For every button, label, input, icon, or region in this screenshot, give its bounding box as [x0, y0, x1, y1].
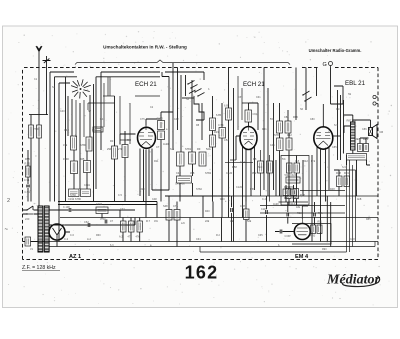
svg-text:EM 4: EM 4 — [295, 254, 309, 260]
svg-text:C120: C120 — [236, 186, 243, 189]
resistor 47 — [129, 221, 135, 232]
svg-text:C81: C81 — [284, 115, 289, 119]
wire — [65, 77, 67, 202]
wire — [101, 72, 160, 150]
svg-text:R.2: R.2 — [216, 234, 221, 237]
wire — [233, 88, 235, 242]
resistor C8 — [287, 163, 293, 173]
wire — [275, 231, 294, 233]
wire — [221, 103, 223, 218]
svg-text:R11: R11 — [154, 160, 159, 163]
svg-text:C.63: C.63 — [100, 217, 106, 221]
svg-text:R23: R23 — [214, 130, 219, 134]
svg-text:27k: 27k — [118, 147, 123, 151]
svg-text:+: + — [228, 199, 230, 203]
wire — [177, 68, 179, 131]
capacitor C115 — [266, 210, 268, 214]
wire stepped — [194, 96, 204, 120]
wire — [103, 95, 115, 97]
resistor 29k — [112, 146, 118, 159]
wire — [316, 68, 318, 97]
capacitor 4n8 b — [364, 144, 369, 152]
output transformer S9 — [351, 122, 356, 150]
svg-text:C40: C40 — [64, 128, 69, 132]
svg-text:R69: R69 — [293, 196, 298, 200]
wire HT bus — [60, 217, 378, 219]
wire — [295, 68, 297, 121]
coil S780 a — [71, 136, 77, 150]
svg-text:C.8: C.8 — [295, 159, 300, 163]
svg-text:S782: S782 — [205, 171, 212, 175]
svg-text:C.5: C.5 — [118, 194, 123, 197]
wire — [123, 218, 140, 242]
capacitor C91 — [26, 185, 30, 187]
wire — [65, 224, 136, 226]
svg-text:162: 162 — [185, 263, 219, 283]
svg-text:A.2: A.2 — [87, 237, 91, 241]
svg-text:R.55: R.55 — [25, 162, 31, 166]
wire — [186, 75, 193, 152]
wire — [338, 90, 371, 196]
svg-text:C61: C61 — [253, 112, 258, 116]
svg-text:C28: C28 — [240, 204, 245, 208]
svg-text:S.9: S.9 — [334, 123, 338, 127]
svg-text:C86: C86 — [362, 128, 367, 131]
IF transformer S780 C191/C192 — [69, 189, 80, 197]
svg-text:C42: C42 — [174, 118, 179, 121]
svg-text:R48: R48 — [336, 171, 341, 175]
wire — [266, 196, 268, 242]
svg-text:R.81: R.81 — [300, 193, 306, 197]
wire — [172, 63, 174, 150]
resistor R55 — [26, 166, 31, 177]
svg-text:C62: C62 — [84, 220, 89, 224]
wire — [228, 68, 230, 218]
band switch contacts — [71, 79, 91, 98]
svg-text:R66: R66 — [293, 115, 298, 119]
svg-text:Umschalter Radio-Gramm.: Umschalter Radio-Gramm. — [309, 48, 362, 53]
tube ECH21 no.2 — [240, 127, 257, 150]
wire — [30, 115, 32, 202]
IF transformer C61 — [245, 110, 252, 122]
svg-text:R4: R4 — [127, 138, 131, 142]
svg-text:R68: R68 — [284, 196, 289, 200]
wire heater bus 1 — [35, 241, 378, 243]
svg-text:C.4: C.4 — [262, 198, 267, 201]
brace under caption — [75, 60, 290, 65]
svg-text:R12: R12 — [287, 133, 292, 137]
wire — [230, 159, 236, 161]
svg-text:R40: R40 — [205, 210, 210, 213]
svg-text:C88: C88 — [350, 238, 355, 241]
wire — [286, 185, 294, 202]
earth / pickup jack — [43, 56, 51, 66]
wire — [303, 155, 312, 242]
coil S781 — [177, 152, 185, 166]
wire — [79, 103, 81, 189]
svg-text:Umschaltekontakten in R.W. - S: Umschaltekontakten in R.W. - Stellung — [103, 45, 187, 50]
tube EM4 — [294, 219, 310, 240]
svg-text:C59: C59 — [238, 96, 243, 99]
resistor R91 — [317, 225, 322, 234]
wire corner — [55, 77, 78, 202]
svg-text:C63: C63 — [120, 208, 125, 211]
capacitor 4n8 a — [358, 144, 363, 152]
wire az1 — [49, 225, 70, 247]
scan speckle — [252, 35, 255, 38]
svg-text:465: 465 — [80, 157, 85, 161]
svg-text:C117: C117 — [289, 202, 296, 206]
wire — [331, 68, 344, 105]
wire — [279, 201, 309, 203]
wire — [180, 164, 193, 202]
electrolytic cap + — [231, 208, 233, 212]
svg-text:S783: S783 — [274, 133, 281, 137]
resistor right — [337, 176, 343, 187]
svg-text:R5: R5 — [253, 157, 257, 161]
wire — [280, 103, 290, 196]
svg-text:S.4: S.4 — [170, 147, 174, 151]
svg-text:C76: C76 — [173, 204, 178, 208]
resistor R12 — [294, 163, 300, 173]
capacitor C108 — [69, 208, 71, 212]
resistor A.C 052 — [258, 161, 264, 173]
svg-text:052: 052 — [252, 171, 257, 175]
svg-text:C64: C64 — [196, 238, 201, 241]
svg-text:C48: C48 — [152, 198, 157, 201]
capacitor C63 — [105, 220, 107, 224]
switch contact right — [303, 91, 312, 101]
wire em4 frame — [292, 206, 331, 244]
wire — [257, 103, 259, 130]
svg-text:S48: S48 — [163, 204, 168, 208]
wire — [260, 212, 345, 214]
wire C44 box — [93, 127, 103, 132]
svg-text:S.9: S.9 — [342, 166, 346, 169]
svg-text:S781: S781 — [185, 147, 192, 151]
svg-text:BES: BES — [363, 137, 368, 141]
svg-text:R.7: R.7 — [146, 219, 151, 223]
svg-text:ECH 21: ECH 21 — [243, 81, 265, 88]
svg-text:C54: C54 — [224, 138, 229, 142]
wire — [74, 150, 87, 189]
loudspeaker — [369, 125, 378, 139]
svg-text:1990: 1990 — [63, 157, 69, 161]
svg-text:Z.F. = 128 kHz: Z.F. = 128 kHz — [22, 265, 56, 271]
tube ECH21 no.1 — [138, 126, 156, 149]
wire — [161, 112, 173, 202]
svg-text:4x20: 4x20 — [273, 202, 279, 206]
wire — [49, 209, 135, 211]
svg-text:C46: C46 — [270, 144, 275, 147]
wire v3 pins — [317, 146, 329, 242]
wire bus — [58, 201, 157, 203]
resistor — [286, 138, 292, 150]
wire corner — [59, 83, 70, 242]
svg-text:R87 R87: R87 R87 — [347, 119, 358, 123]
resistor R69b — [291, 189, 297, 196]
wire — [120, 139, 131, 141]
wire speaker leads — [344, 115, 371, 128]
svg-text:52k: 52k — [247, 219, 252, 223]
tube EBL21 — [314, 104, 333, 149]
wire — [162, 72, 169, 190]
svg-text:C.54: C.54 — [218, 123, 224, 127]
svg-text:C43: C43 — [176, 171, 181, 175]
wire — [288, 196, 331, 247]
schematic dashed border — [23, 68, 379, 260]
capacitor C193 trimmer — [158, 121, 165, 130]
fuse — [25, 237, 31, 246]
antenna coil box b — [37, 125, 42, 138]
capacitor em4 — [314, 213, 316, 217]
wire mains — [23, 210, 39, 214]
svg-text:C41: C41 — [100, 118, 105, 121]
capacitor C62 — [88, 223, 90, 227]
svg-text:47k: 47k — [63, 143, 68, 147]
wire — [27, 150, 29, 202]
svg-text:C120: C120 — [226, 171, 233, 175]
svg-text:C6: C6 — [380, 130, 384, 134]
terminal circles right border — [373, 95, 376, 98]
svg-text:R22: R22 — [297, 212, 302, 215]
wire — [46, 66, 48, 115]
wire bus — [58, 204, 157, 206]
wire — [103, 83, 105, 127]
svg-text:ECH 21: ECH 21 — [135, 81, 157, 88]
wire — [261, 150, 270, 202]
wire — [65, 218, 135, 226]
wire — [152, 189, 169, 191]
choke smoothing — [96, 207, 108, 214]
svg-text:S780: S780 — [70, 194, 76, 197]
wire — [152, 189, 169, 191]
wire — [180, 75, 182, 152]
wire R58 line — [225, 162, 253, 164]
svg-text:C44: C44 — [240, 160, 245, 164]
svg-text:AZ 1: AZ 1 — [69, 254, 81, 260]
svg-text:52A: 52A — [206, 147, 211, 151]
antenna coil box a — [29, 125, 34, 138]
wire — [237, 76, 239, 130]
svg-text:C.108: C.108 — [63, 206, 70, 209]
svg-text:RES: RES — [355, 137, 361, 141]
svg-text:R.9: R.9 — [311, 159, 316, 163]
svg-text:R12: R12 — [303, 159, 308, 163]
wire — [334, 170, 339, 196]
wire — [88, 103, 115, 110]
wire bus osc — [165, 195, 230, 197]
svg-text:R55: R55 — [25, 157, 30, 161]
resistor R7 47k — [137, 221, 143, 232]
svg-text:R9: R9 — [197, 147, 201, 151]
wire — [260, 205, 345, 207]
switch contacts osc — [188, 81, 205, 97]
wire v1 pins — [140, 149, 152, 218]
resistor R68 — [283, 189, 289, 196]
capacitor block C49 498 — [177, 176, 192, 183]
resistor AZ row — [121, 221, 127, 232]
svg-text:4x20: 4x20 — [163, 142, 169, 146]
svg-text:C191: C191 — [96, 202, 103, 206]
wire — [96, 77, 160, 189]
capacitor C194 — [158, 131, 165, 140]
wire — [67, 96, 69, 136]
resistor S.C 052 — [267, 161, 273, 173]
svg-text:R20: R20 — [140, 188, 145, 191]
resistor em4 anode — [311, 225, 316, 234]
mains transformer — [38, 206, 49, 252]
feedback network box — [281, 156, 309, 206]
wire — [241, 88, 243, 120]
resistor cluster — [277, 121, 283, 133]
wire — [231, 196, 233, 242]
svg-text:6.85: 6.85 — [216, 113, 222, 117]
svg-text:22k: 22k — [205, 219, 210, 223]
wire — [249, 103, 259, 127]
wire heater bus 2 — [49, 242, 375, 247]
svg-text:R90: R90 — [322, 248, 327, 251]
svg-text:220: 220 — [25, 217, 30, 221]
wire — [109, 77, 111, 96]
wire — [129, 103, 131, 144]
wire — [333, 135, 341, 137]
coil S783 — [277, 138, 284, 151]
svg-text:R60: R60 — [96, 234, 101, 237]
svg-text:C75: C75 — [140, 118, 145, 121]
svg-text:4x93: 4x93 — [310, 235, 316, 238]
wire — [201, 103, 203, 140]
wire v2 grid — [236, 136, 240, 160]
wire — [115, 96, 126, 202]
wire drops — [157, 196, 222, 242]
svg-text:G: G — [323, 62, 327, 68]
svg-text:2: 2 — [7, 198, 10, 204]
svg-text:6,3: 6,3 — [110, 244, 114, 247]
resistor — [122, 145, 128, 158]
svg-text:R13: R13 — [336, 108, 341, 111]
svg-text:~: ~ — [5, 227, 9, 233]
wire antenna lead — [38, 56, 40, 115]
wire — [165, 72, 204, 80]
svg-text:S782: S782 — [196, 188, 202, 191]
svg-text:C.2: C.2 — [64, 237, 69, 241]
tube AZ1 — [49, 224, 65, 240]
svg-text:C.6: C.6 — [70, 234, 75, 237]
svg-text:R49: R49 — [344, 171, 349, 175]
svg-text:S.C: S.C — [258, 165, 262, 169]
wire — [107, 77, 109, 96]
svg-text:C33P: C33P — [285, 235, 292, 238]
svg-text:C193: C193 — [157, 117, 164, 121]
svg-text:C192 S780: C192 S780 — [68, 197, 82, 201]
wire — [245, 196, 247, 242]
wire — [135, 95, 160, 97]
svg-text:498: 498 — [190, 171, 195, 175]
capacitor 5%2 C126 — [286, 177, 300, 183]
svg-text:C80: C80 — [310, 118, 315, 121]
svg-text:S780: S780 — [80, 143, 87, 147]
mains switch — [27, 206, 33, 214]
wire — [267, 88, 269, 196]
resistor R66 R69 — [286, 189, 292, 199]
wire — [93, 84, 95, 202]
wire — [305, 68, 307, 111]
svg-text:R31: R31 — [262, 128, 267, 131]
svg-text:R58: R58 — [232, 165, 237, 169]
resistor C28 — [244, 209, 250, 220]
wire — [334, 169, 356, 171]
svg-text:R58: R58 — [250, 188, 255, 191]
svg-text:C40: C40 — [60, 110, 65, 113]
wire — [200, 247, 347, 253]
wire — [242, 102, 249, 104]
wire v1 top — [146, 119, 160, 126]
wire — [212, 96, 214, 202]
svg-text:C65: C65 — [258, 234, 263, 237]
coil — [71, 161, 78, 174]
svg-text:C61: C61 — [256, 96, 261, 99]
svg-text:R85: R85 — [366, 218, 371, 221]
osc coil box — [199, 152, 206, 166]
svg-text:R91: R91 — [318, 221, 323, 224]
wire — [119, 96, 121, 134]
wire v1 grid — [120, 134, 136, 145]
svg-text:R3: R3 — [110, 139, 114, 143]
wire — [274, 103, 277, 196]
svg-text:R48: R48 — [330, 188, 335, 191]
wire — [89, 95, 91, 137]
svg-text:4n8: 4n8 — [357, 197, 362, 201]
trimmer C54 — [219, 128, 226, 139]
svg-text:2700: 2700 — [33, 127, 39, 131]
resistor 47k — [86, 137, 92, 151]
svg-text:C85: C85 — [332, 146, 337, 149]
resistor — [84, 161, 91, 173]
wire corner — [50, 72, 74, 202]
wire — [169, 196, 177, 247]
resistor column mid — [210, 118, 216, 131]
wire v2 pins — [243, 147, 255, 218]
wire — [76, 100, 84, 137]
wire — [263, 68, 265, 191]
svg-text:5%2 C126: 5%2 C126 — [285, 174, 297, 177]
wire — [198, 195, 378, 197]
padder C49 — [189, 152, 196, 164]
wire — [38, 115, 40, 206]
antenna — [36, 46, 42, 56]
svg-text:C7: C7 — [156, 145, 160, 149]
wire — [90, 210, 120, 219]
wire — [29, 114, 48, 116]
resistor 6.85 — [226, 108, 232, 120]
wire — [71, 99, 73, 136]
wire — [182, 97, 194, 99]
svg-text:C76: C76 — [92, 128, 97, 132]
svg-text:EBL 21: EBL 21 — [345, 80, 366, 87]
wire — [347, 155, 356, 252]
wire — [289, 156, 297, 206]
svg-text:L/C: L/C — [181, 221, 185, 225]
svg-text:C.91: C.91 — [24, 178, 30, 182]
wire — [300, 190, 345, 192]
wire — [376, 97, 378, 104]
svg-text:290: 290 — [107, 147, 112, 151]
coil S48 C76 — [166, 210, 172, 221]
svg-text:C191: C191 — [84, 184, 91, 187]
resistor R85 — [347, 154, 367, 161]
